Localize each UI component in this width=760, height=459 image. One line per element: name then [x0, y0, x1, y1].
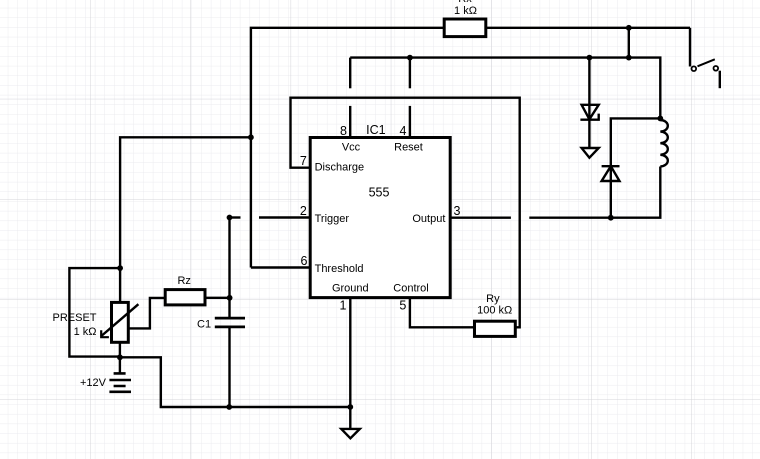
node junction pin4 rail at 409.9,57.6 [407, 55, 413, 61]
node junction at 250.9,137.3 [248, 134, 254, 140]
value label 1 kΩ for Rx [454, 5, 477, 17]
svg-text:Vcc: Vcc [342, 142, 361, 154]
wire flyback diode bottom connection [610, 166, 612, 218]
svg-text:Discharge: Discharge [315, 162, 365, 174]
pin label Output [412, 213, 445, 225]
pin 2 number [300, 204, 307, 218]
svg-text:C1: C1 [197, 318, 211, 330]
pin label Vcc [342, 142, 361, 154]
pin 7 number [300, 154, 307, 168]
switch SW1 [692, 59, 719, 71]
node ground junction at 350.3,407 [347, 404, 353, 410]
svg-text:+12V: +12V [80, 377, 107, 389]
wire potentiometer wiper to Rz [128, 298, 165, 329]
ground symbol at pin 1 rail [341, 429, 360, 438]
zener diode D1 [580, 105, 598, 120]
wire horizontal y=137 to left vertical [120, 137, 251, 302]
svg-text:5: 5 [399, 299, 406, 313]
wire Vcc pin 8 upper segment above hop [349, 58, 351, 89]
relay coil L1 [660, 120, 668, 166]
node junction flyback bottom at 610.8,217.7 [608, 215, 614, 221]
wire Ry left to control pin 5 [410, 298, 475, 328]
label Ry [486, 293, 500, 305]
svg-text:Ground: Ground [332, 283, 369, 295]
wire switch lower terminal tail [719, 71, 721, 89]
svg-text:2: 2 [300, 204, 307, 218]
wire ground pin 1 down to rail and ground symbol [349, 298, 351, 429]
svg-text:PRESET: PRESET [52, 312, 96, 324]
label 555 [369, 186, 390, 200]
wire flyback diode top connection [611, 118, 661, 166]
pin 5 number [399, 299, 406, 313]
value label 1 kΩ for PRESET [74, 326, 97, 338]
capacitor C1 [215, 318, 245, 327]
wire second rail from pin8 corner to relay drop [350, 58, 660, 119]
svg-text:100 kΩ: 100 kΩ [477, 305, 512, 317]
potentiometer PRESET 1 kΩ [100, 302, 138, 342]
label +12V [80, 377, 107, 389]
svg-text:1: 1 [340, 299, 347, 313]
wire pot bottom node to bottom rail [120, 357, 350, 407]
pin 4 number [400, 124, 407, 138]
pin label Control [393, 283, 428, 295]
wire top rail from node A down left side corner to threshold level [251, 28, 690, 268]
value label 100 kΩ for Ry [477, 305, 512, 317]
svg-text:555: 555 [369, 186, 390, 200]
wire zener branch from rail [588, 58, 590, 120]
wire threshold to pin 6 [251, 266, 310, 268]
wire C1 branch upper [228, 218, 230, 319]
wire output right of hop to coil bottom [529, 167, 660, 218]
node junction at 120.1,268.1 [117, 265, 123, 271]
wire battery stem [119, 357, 121, 373]
svg-text:3: 3 [454, 204, 461, 218]
svg-text:Threshold: Threshold [315, 263, 364, 275]
ground symbol below zener [582, 148, 599, 158]
wire trigger to pin 2 [259, 216, 310, 218]
wire pot bottom stub [119, 342, 121, 357]
pin label Discharge [315, 162, 365, 174]
node junction trigger at 229.5,217.5 [227, 215, 233, 221]
label Rx (cut off at top) [458, 0, 472, 5]
node junction relay top at 660.3,118.4 [657, 116, 663, 122]
svg-text:Trigger: Trigger [315, 213, 350, 225]
node junction Rz at 229.6,297.8 [227, 295, 233, 301]
pin label Trigger [315, 213, 350, 225]
wire Vcc pin 8 lower segment below hop [349, 106, 351, 138]
svg-text:Rz: Rz [177, 275, 190, 287]
wire rail1 right drop to switch [689, 28, 691, 67]
node junction link top at 628.8,27.8 [626, 25, 632, 31]
svg-text:4: 4 [400, 124, 407, 138]
wire trigger stub from node (hop gap) [230, 216, 241, 218]
label Rz [177, 275, 190, 287]
wire link between rails [628, 28, 630, 58]
svg-text:Output: Output [412, 213, 445, 225]
wire output pin 3 left of hop [450, 216, 511, 218]
wire zener cathode to ground symbol [588, 120, 590, 148]
pin 3 number [454, 204, 461, 218]
svg-text:Reset: Reset [394, 142, 423, 154]
wire discharge pin 7 loop over IC to Ry right side [291, 98, 520, 328]
wire Rz right to C1 node [205, 297, 230, 299]
label PRESET [52, 312, 96, 324]
resistor Ry [475, 321, 516, 336]
op-amp IC1 555 timer box [310, 138, 450, 298]
pin 6 number [301, 254, 308, 268]
wire reset pin 4 upper segment [409, 58, 411, 89]
svg-text:1 kΩ: 1 kΩ [454, 5, 477, 17]
svg-text:Control: Control [393, 283, 428, 295]
diode D2 flyback [602, 166, 620, 181]
node junction at 119.9,357.3 [117, 354, 123, 360]
node junction link bottom at 628.8,57.6 [626, 55, 632, 61]
svg-text:7: 7 [300, 154, 307, 168]
pin label Reset [394, 142, 423, 154]
wire reset pin 4 lower segment [409, 106, 411, 138]
battery +12V [109, 373, 131, 391]
node junction C1 bottom on rail at 229.2,407 [226, 404, 232, 410]
resistor Rz [165, 290, 205, 305]
pin label Threshold [315, 263, 364, 275]
svg-text:Ry: Ry [486, 293, 500, 305]
node junction zener branch at 589.4,57.6 [587, 55, 593, 61]
pin label Ground [332, 283, 369, 295]
label C1 [197, 318, 211, 330]
svg-text:IC1: IC1 [366, 123, 386, 137]
pin 1 number [340, 299, 347, 313]
wire C1 branch lower [228, 327, 230, 407]
svg-text:6: 6 [301, 254, 308, 268]
label IC1 [366, 123, 386, 137]
svg-text:1 kΩ: 1 kΩ [74, 326, 97, 338]
svg-text:8: 8 [340, 124, 347, 138]
resistor Rx [444, 19, 486, 37]
wire left bracket around potentiometer [69, 268, 120, 357]
pin 8 number [340, 124, 347, 138]
